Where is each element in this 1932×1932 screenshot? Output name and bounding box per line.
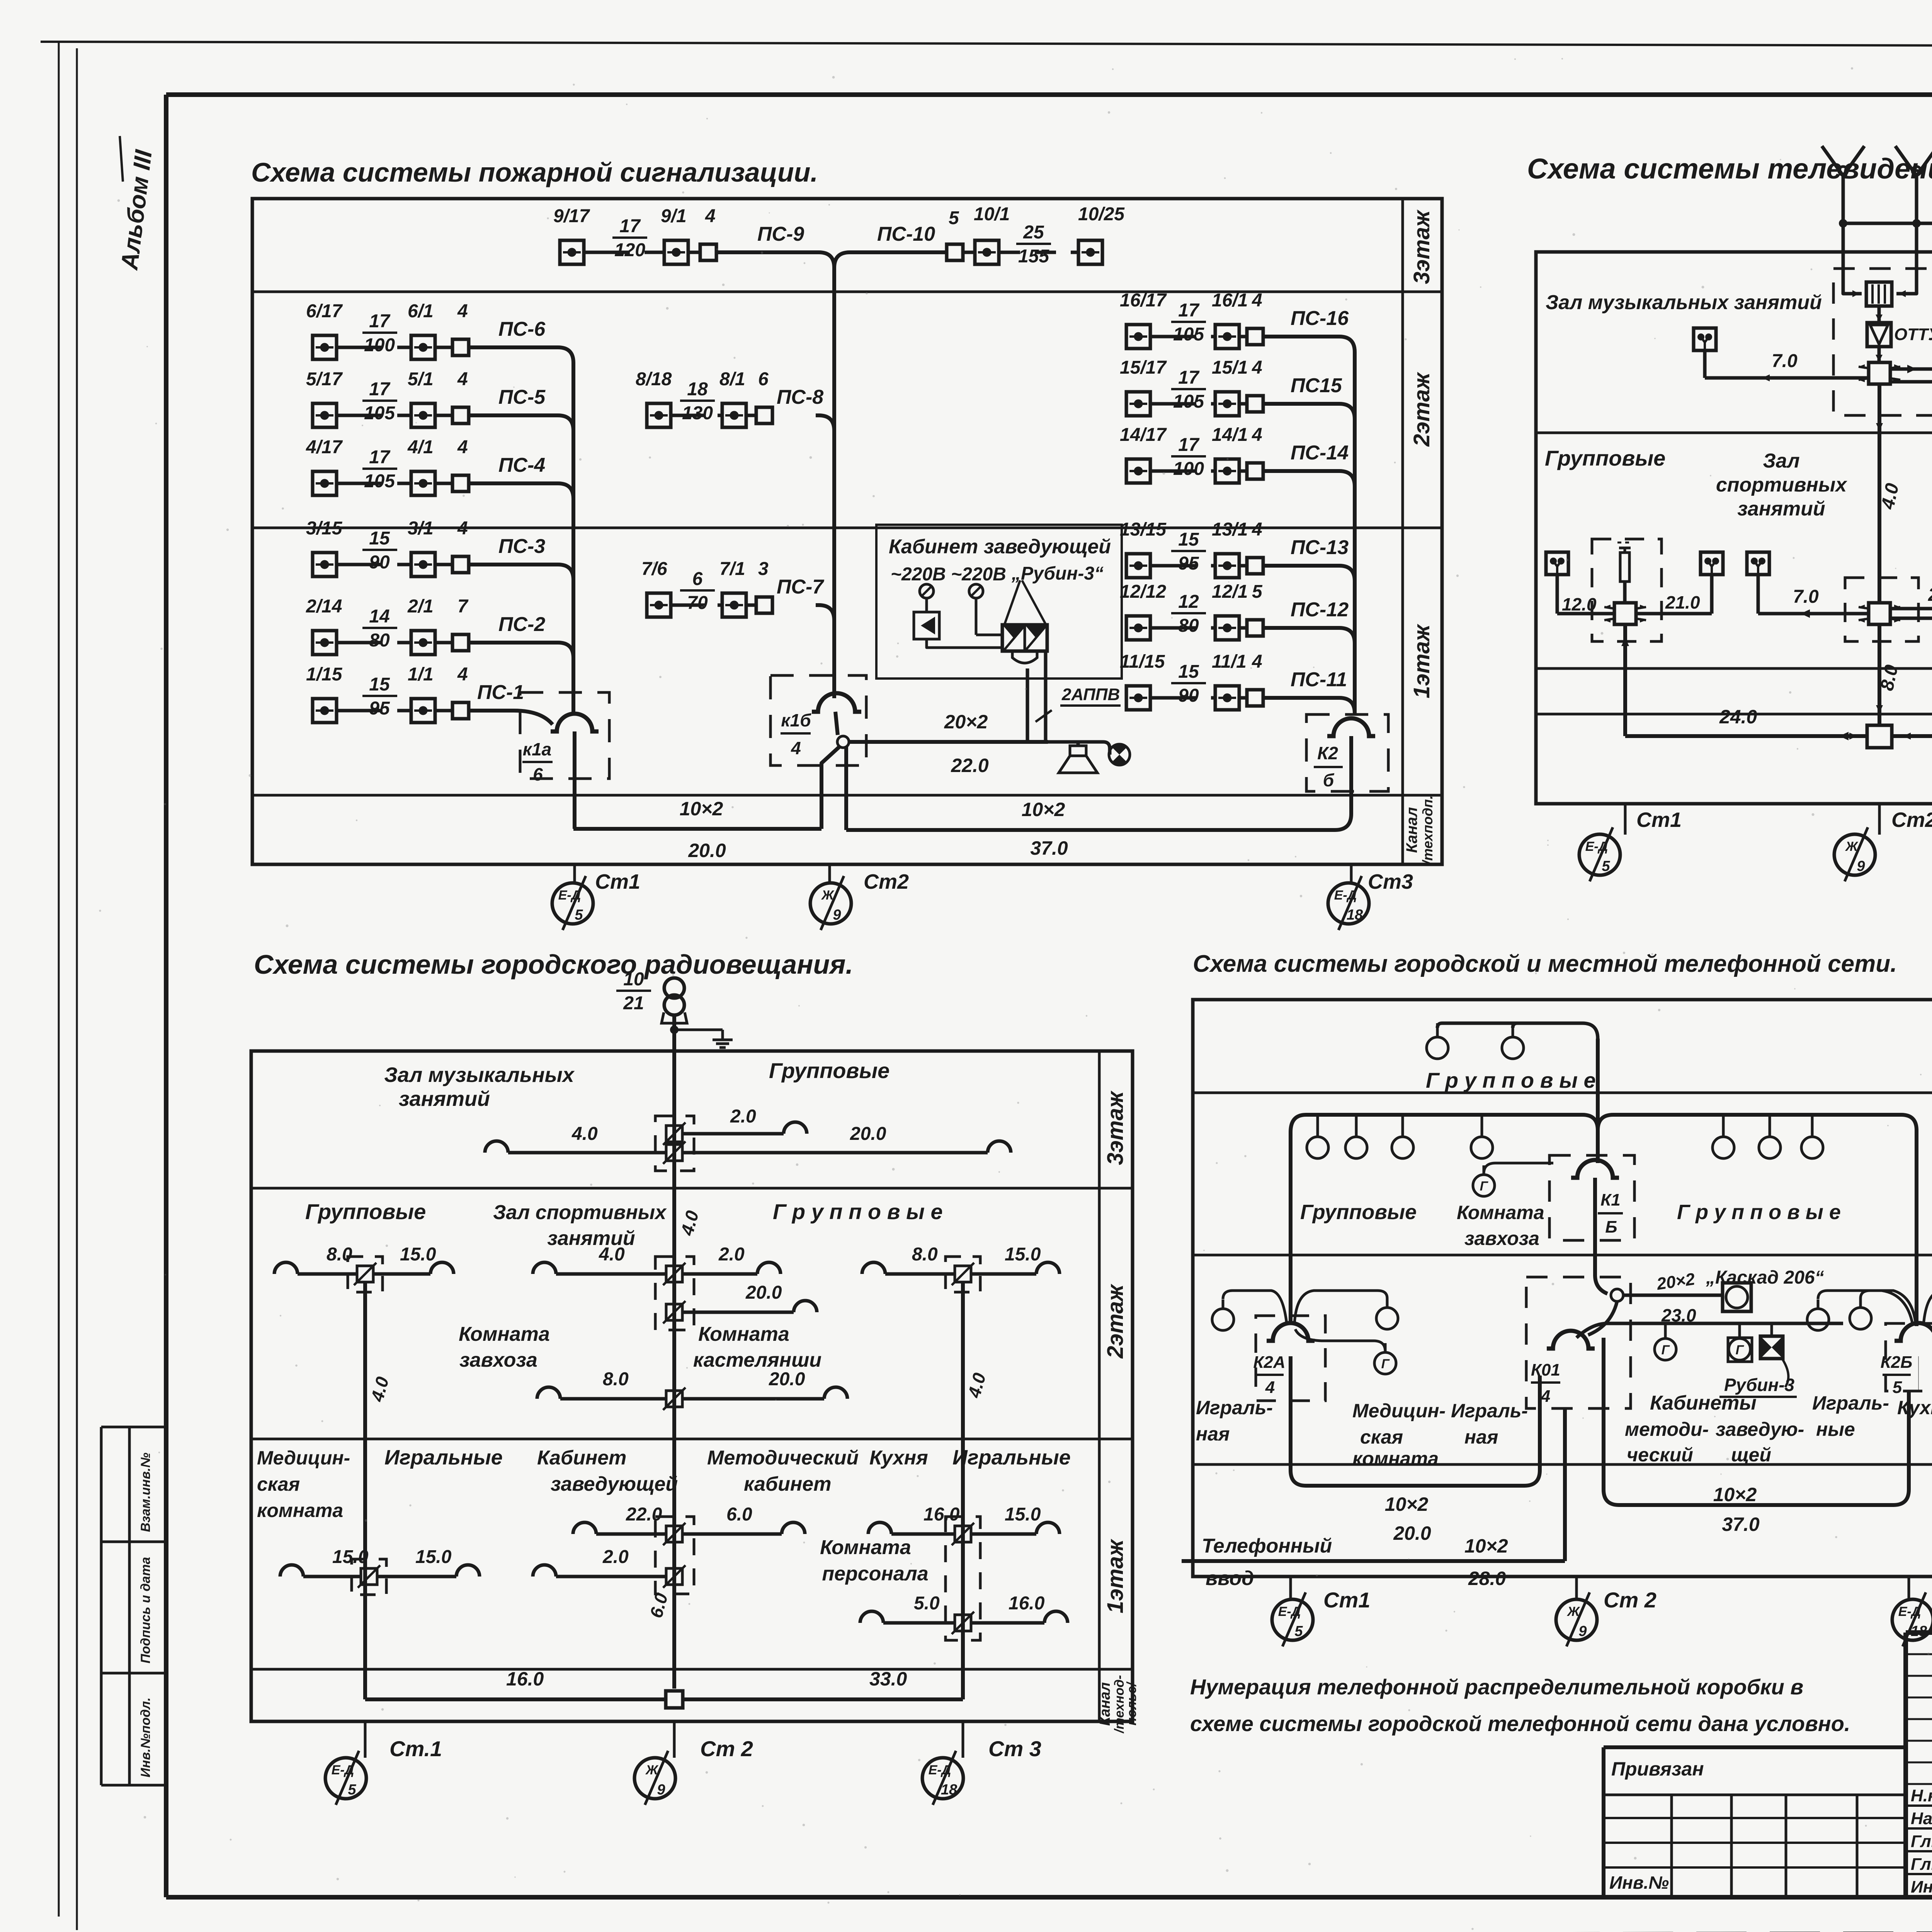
svg-text:95: 95 (1178, 553, 1199, 574)
svg-text:17: 17 (369, 311, 391, 332)
svg-text:Ст 2: Ст 2 (700, 1736, 753, 1761)
svg-text:90: 90 (1178, 685, 1199, 706)
svg-text:К2Б: К2Б (1881, 1353, 1913, 1372)
svg-text:Подпись и дата: Подпись и дата (138, 1557, 153, 1663)
svg-text:Игральные: Игральные (384, 1446, 503, 1469)
svg-text:13/15: 13/15 (1120, 519, 1167, 540)
svg-text:28.0: 28.0 (1468, 1568, 1506, 1589)
svg-text:100: 100 (364, 335, 395, 355)
svg-text:Схема системы телевидения: Схема системы телевидения (1527, 153, 1932, 185)
svg-text:17: 17 (619, 216, 641, 236)
svg-text:Г: Г (1480, 1179, 1489, 1194)
svg-text:37.0: 37.0 (1722, 1514, 1760, 1535)
svg-text:заведующей: заведующей (551, 1473, 678, 1495)
svg-text:Е-Д: Е-Д (558, 888, 581, 903)
svg-text:16.0: 16.0 (1009, 1593, 1045, 1614)
svg-text:33.0: 33.0 (869, 1668, 907, 1690)
svg-text:18: 18 (941, 1782, 957, 1798)
svg-text:ческий: ческий (1627, 1444, 1693, 1466)
svg-text:К2: К2 (1317, 743, 1338, 763)
svg-text:ная: ная (1464, 1426, 1498, 1448)
svg-text:4: 4 (1252, 651, 1262, 672)
svg-text:2этаж: 2этаж (1409, 371, 1434, 447)
svg-text:18: 18 (687, 379, 708, 400)
svg-text:8/18: 8/18 (636, 369, 672, 389)
svg-text:ПС-2: ПС-2 (498, 613, 545, 636)
svg-text:6/1: 6/1 (408, 301, 434, 321)
svg-text:Схема системы пожарной сигнали: Схема системы пожарной сигнализации. (251, 157, 818, 187)
svg-text:ОТТУ: ОТТУ (1894, 325, 1932, 344)
svg-text:Г: Г (1736, 1343, 1745, 1357)
svg-text:ская: ская (1360, 1426, 1403, 1448)
svg-text:ввод: ввод (1206, 1567, 1254, 1590)
svg-text:Е-Д: Е-Д (929, 1763, 951, 1777)
svg-text:завхоза: завхоза (459, 1349, 537, 1371)
svg-text:Нач.отд.: Нач.отд. (1911, 1809, 1932, 1828)
svg-text:70: 70 (687, 593, 708, 613)
svg-text:ПС-7: ПС-7 (777, 576, 824, 598)
svg-text:Б: Б (1605, 1218, 1617, 1236)
svg-text:80: 80 (369, 630, 390, 651)
svg-text:ПС-10: ПС-10 (877, 223, 935, 245)
svg-text:1этаж: 1этаж (1103, 1538, 1128, 1613)
svg-text:12: 12 (1178, 592, 1199, 612)
svg-text:16.0: 16.0 (506, 1668, 544, 1690)
svg-text:16/1: 16/1 (1212, 290, 1248, 311)
svg-text:Ст2: Ст2 (864, 870, 909, 893)
svg-text:20.0: 20.0 (745, 1282, 782, 1303)
svg-text:ПС-12: ПС-12 (1291, 599, 1349, 621)
svg-text:4/1: 4/1 (407, 437, 434, 457)
svg-text:Привязан: Привязан (1611, 1758, 1704, 1780)
svg-text:К2А: К2А (1253, 1353, 1285, 1372)
svg-text:14/17: 14/17 (1120, 425, 1167, 445)
svg-text:3/1: 3/1 (408, 518, 434, 539)
svg-text:Медицин-: Медицин- (257, 1447, 350, 1469)
svg-text:Зал спортивных: Зал спортивных (493, 1201, 667, 1224)
svg-text:2/14: 2/14 (306, 596, 342, 617)
svg-text:персонала: персонала (822, 1563, 928, 1585)
svg-text:5: 5 (1602, 858, 1610, 874)
svg-text:Ст 3: Ст 3 (988, 1736, 1041, 1761)
svg-text:24.0: 24.0 (1719, 706, 1757, 728)
svg-text:10×2: 10×2 (1385, 1493, 1429, 1515)
svg-text:ПС-5: ПС-5 (498, 386, 546, 408)
svg-text:Комната: Комната (1457, 1202, 1544, 1223)
svg-text:Инж: Инж (1911, 1878, 1932, 1896)
svg-text:4: 4 (1252, 357, 1262, 378)
svg-text:Г р у п п о в ы е: Г р у п п о в ы е (773, 1199, 943, 1224)
svg-text:37.0: 37.0 (1030, 837, 1068, 859)
svg-text:17: 17 (369, 447, 391, 468)
svg-text:схеме системы городской телефо: схеме системы городской телефонной сети … (1190, 1711, 1850, 1736)
svg-text:105: 105 (364, 471, 395, 492)
svg-text:ПС-14: ПС-14 (1291, 442, 1349, 464)
svg-text:21.0: 21.0 (1665, 592, 1700, 612)
svg-text:К1: К1 (1600, 1190, 1621, 1209)
svg-text:4.0: 4.0 (599, 1244, 625, 1265)
svg-text:2.0: 2.0 (1928, 585, 1932, 605)
svg-text:Кухня: Кухня (1897, 1397, 1932, 1418)
svg-text:15: 15 (369, 674, 390, 695)
svg-text:Групповые: Групповые (769, 1058, 889, 1083)
svg-text:9: 9 (1578, 1623, 1587, 1639)
svg-text:ская: ская (257, 1473, 300, 1495)
svg-text:5/17: 5/17 (306, 369, 343, 389)
svg-text:3этаж: 3этаж (1409, 209, 1434, 284)
svg-text:завхоза: завхоза (1464, 1228, 1539, 1249)
svg-text:Канал: Канал (1403, 807, 1420, 853)
svg-text:Инв.№: Инв.№ (1609, 1872, 1669, 1893)
svg-text:25: 25 (1023, 222, 1044, 243)
svg-text:14: 14 (369, 606, 389, 627)
svg-text:спортивных: спортивных (1716, 474, 1847, 496)
svg-text:Кабинет заведующей: Кабинет заведующей (889, 536, 1111, 558)
svg-text:10/1: 10/1 (974, 204, 1010, 224)
svg-text:полье/: полье/ (1124, 1681, 1139, 1726)
svg-text:5: 5 (949, 208, 959, 228)
svg-text:15/17: 15/17 (1120, 357, 1167, 378)
svg-text:4: 4 (1541, 1387, 1550, 1406)
svg-text:11/1: 11/1 (1212, 651, 1247, 672)
svg-text:ПС-16: ПС-16 (1291, 307, 1349, 330)
svg-text:1/15: 1/15 (306, 664, 343, 685)
svg-text:16.0: 16.0 (923, 1504, 960, 1525)
svg-text:Инв.№подл.: Инв.№подл. (138, 1697, 153, 1777)
svg-text:90: 90 (369, 552, 390, 573)
svg-text:6: 6 (758, 369, 769, 389)
svg-text:Схема системы городского радио: Схема системы городского радиовещания. (254, 949, 853, 980)
svg-text:17: 17 (1178, 435, 1200, 455)
svg-text:17: 17 (1178, 367, 1200, 388)
svg-text:ПС-11: ПС-11 (1291, 668, 1347, 691)
svg-text:2АППВ: 2АППВ (1061, 685, 1120, 704)
svg-text:ПС-9: ПС-9 (757, 223, 804, 245)
svg-text:ПС15: ПС15 (1291, 374, 1342, 397)
svg-text:Е-Д: Е-Д (1278, 1604, 1301, 1619)
svg-text:Играль-: Играль- (1451, 1400, 1528, 1422)
svg-text:4: 4 (1252, 519, 1262, 540)
svg-text:Медицин-: Медицин- (1352, 1400, 1446, 1422)
svg-text:Телефонный: Телефонный (1202, 1535, 1332, 1557)
svg-text:занятий: занятий (1737, 498, 1825, 520)
svg-text:4.0: 4.0 (571, 1124, 598, 1144)
svg-text:Е-Д: Е-Д (1898, 1604, 1921, 1619)
svg-text:15: 15 (369, 528, 390, 549)
svg-text:ПС-1: ПС-1 (477, 681, 524, 704)
svg-text:Кабинет: Кабинет (537, 1447, 626, 1469)
svg-text:2.0: 2.0 (602, 1547, 629, 1567)
svg-text:10×2: 10×2 (1713, 1484, 1757, 1505)
svg-text:20.0: 20.0 (769, 1369, 805, 1389)
svg-text:Комната: Комната (698, 1323, 789, 1345)
svg-text:Н.контр.: Н.контр. (1911, 1786, 1932, 1805)
svg-text:7/6: 7/6 (641, 559, 667, 579)
svg-text:15/1: 15/1 (1212, 357, 1248, 378)
svg-text:2.0: 2.0 (718, 1244, 745, 1265)
svg-text:1этаж: 1этаж (1409, 623, 1434, 698)
svg-text:20.0: 20.0 (688, 840, 726, 861)
svg-text:3: 3 (758, 559, 769, 579)
svg-text:Ж: Ж (821, 888, 835, 903)
svg-text:Групповые: Групповые (305, 1199, 426, 1224)
svg-text:2/1: 2/1 (407, 596, 434, 617)
svg-text:Ст3: Ст3 (1368, 870, 1413, 893)
svg-text:К01: К01 (1531, 1361, 1560, 1379)
svg-text:10×2: 10×2 (1022, 799, 1065, 820)
svg-text:к1б: к1б (781, 710, 811, 730)
svg-text:Взам.инв.№: Взам.инв.№ (138, 1452, 153, 1532)
svg-text:100: 100 (1173, 459, 1204, 479)
svg-text:22.0: 22.0 (951, 755, 989, 776)
svg-text:15.0: 15.0 (1005, 1244, 1041, 1265)
svg-text:4: 4 (457, 437, 468, 457)
svg-text:3этаж: 3этаж (1103, 1090, 1128, 1165)
svg-text:4: 4 (1265, 1378, 1275, 1397)
svg-text:8.0: 8.0 (603, 1369, 629, 1389)
svg-text:Ст1: Ст1 (595, 870, 640, 893)
svg-text:Комната: Комната (820, 1536, 911, 1559)
svg-text:10/25: 10/25 (1078, 204, 1125, 224)
svg-text:2этаж: 2этаж (1103, 1283, 1128, 1359)
svg-text:Е-Д: Е-Д (1334, 888, 1357, 903)
svg-text:7: 7 (457, 596, 469, 617)
svg-text:Ст1: Ст1 (1323, 1588, 1370, 1612)
svg-text:5: 5 (575, 907, 583, 923)
svg-text:Г: Г (1662, 1343, 1670, 1357)
svg-text:5: 5 (1294, 1623, 1303, 1639)
svg-text:105: 105 (364, 403, 395, 423)
svg-text:заведую-: заведую- (1716, 1418, 1804, 1440)
svg-text:22.0: 22.0 (626, 1504, 662, 1525)
svg-text:95: 95 (369, 698, 390, 719)
svg-text:9: 9 (657, 1782, 665, 1798)
svg-text:Групповые: Групповые (1545, 446, 1665, 470)
svg-text:Кухня: Кухня (869, 1447, 928, 1469)
svg-text:Кабинеты: Кабинеты (1650, 1392, 1757, 1414)
svg-text:к1а: к1а (523, 739, 551, 759)
svg-text:Ст2: Ст2 (1891, 808, 1932, 832)
svg-text:120: 120 (614, 240, 645, 260)
svg-text:Групповые: Групповые (1300, 1201, 1417, 1224)
svg-text:17: 17 (1178, 300, 1200, 321)
svg-text:ПС-13: ПС-13 (1291, 536, 1349, 559)
svg-text:18: 18 (1347, 907, 1363, 923)
svg-text:9: 9 (833, 907, 841, 923)
svg-text:Ст 2: Ст 2 (1604, 1588, 1656, 1612)
svg-text:/техподп.: /техподп. (1420, 795, 1435, 865)
svg-text:4: 4 (457, 369, 468, 389)
svg-text:Схема системы городской и мест: Схема системы городской и местной телефо… (1193, 951, 1897, 977)
svg-text:14/1: 14/1 (1212, 425, 1248, 445)
svg-text:5: 5 (1893, 1378, 1902, 1397)
svg-text:7.0: 7.0 (1793, 587, 1819, 607)
svg-text:155: 155 (1018, 246, 1049, 267)
svg-text:10: 10 (623, 969, 644, 990)
svg-text:130: 130 (682, 403, 713, 423)
svg-text:4: 4 (457, 518, 468, 539)
svg-text:кастелянши: кастелянши (693, 1349, 821, 1371)
svg-text:ПС-4: ПС-4 (498, 454, 545, 476)
svg-text:~220В ~220В: ~220В ~220В (891, 564, 1006, 585)
svg-text:Комната: Комната (459, 1323, 550, 1345)
svg-text:9/17: 9/17 (553, 206, 590, 226)
svg-text:13/1: 13/1 (1212, 519, 1248, 540)
svg-text:Методический: Методический (707, 1447, 859, 1469)
svg-text:10×2: 10×2 (680, 798, 723, 820)
svg-text:11/15: 11/15 (1120, 651, 1165, 672)
svg-text:5: 5 (1252, 582, 1263, 602)
svg-text:Играль-: Играль- (1812, 1392, 1889, 1414)
svg-text:8/1: 8/1 (719, 369, 745, 389)
svg-text:кабинет: кабинет (744, 1473, 831, 1495)
svg-text:12/1: 12/1 (1212, 582, 1248, 602)
svg-text:12/12: 12/12 (1120, 582, 1166, 602)
svg-text:ПС-8: ПС-8 (777, 386, 823, 408)
svg-text:Г: Г (1381, 1357, 1390, 1371)
svg-text:21: 21 (623, 993, 644, 1014)
svg-text:5: 5 (348, 1782, 356, 1798)
svg-text:7/1: 7/1 (719, 559, 745, 579)
svg-text:4: 4 (457, 301, 468, 321)
svg-text:6.0: 6.0 (726, 1504, 752, 1525)
svg-text:4: 4 (457, 664, 468, 685)
svg-text:4/17: 4/17 (306, 437, 343, 457)
svg-text:15: 15 (1178, 662, 1199, 682)
svg-text:15.0: 15.0 (400, 1244, 436, 1265)
svg-text:9/1: 9/1 (661, 206, 687, 226)
svg-text:ПС-3: ПС-3 (498, 535, 545, 558)
svg-text:12.0: 12.0 (1562, 594, 1597, 614)
svg-text:б: б (1323, 770, 1335, 790)
svg-text:4: 4 (1252, 425, 1262, 445)
svg-text:комната: комната (257, 1500, 343, 1521)
svg-text:6: 6 (692, 569, 703, 589)
svg-text:Ж: Ж (1845, 839, 1859, 854)
svg-text:105: 105 (1173, 324, 1204, 345)
svg-text:Ж: Ж (1566, 1604, 1580, 1619)
svg-text:Канал: Канал (1097, 1682, 1113, 1726)
svg-text:Гл.спец.: Гл.спец. (1911, 1855, 1932, 1874)
svg-text:15: 15 (1178, 529, 1199, 550)
svg-text:Ж: Ж (645, 1763, 659, 1777)
svg-text:16/17: 16/17 (1120, 290, 1167, 311)
svg-text:15.0: 15.0 (415, 1547, 452, 1567)
svg-text:80: 80 (1178, 616, 1199, 636)
svg-text:Зал музыкальных: Зал музыкальных (384, 1063, 575, 1087)
svg-text:20.0: 20.0 (850, 1124, 886, 1144)
svg-text:Игральные: Игральные (952, 1446, 1071, 1469)
svg-text:занятий: занятий (399, 1087, 490, 1111)
svg-text:10×2: 10×2 (1464, 1535, 1508, 1557)
svg-text:4: 4 (791, 738, 801, 758)
svg-text:8.0: 8.0 (912, 1244, 938, 1265)
svg-text:Зал музыкальных занятий: Зал музыкальных занятий (1546, 291, 1822, 314)
svg-text:20.0: 20.0 (1393, 1522, 1431, 1544)
svg-text:105: 105 (1173, 391, 1204, 412)
svg-text:Е-Д: Е-Д (1585, 839, 1608, 854)
svg-text:Зал: Зал (1763, 450, 1799, 472)
svg-text:17: 17 (369, 379, 391, 400)
svg-text:ная: ная (1196, 1423, 1230, 1445)
svg-text:6: 6 (533, 764, 543, 784)
svg-text:Ст1: Ст1 (1636, 808, 1682, 832)
svg-text:Гл.инж.: Гл.инж. (1911, 1832, 1932, 1851)
svg-text:9: 9 (1857, 858, 1865, 874)
svg-text:щей: щей (1731, 1444, 1771, 1466)
svg-text:ные: ные (1816, 1418, 1855, 1440)
svg-text:Г р у п п о в ы е: Г р у п п о в ы е (1677, 1201, 1841, 1224)
svg-text:15.0: 15.0 (1005, 1504, 1041, 1525)
svg-text:комната: комната (1352, 1448, 1439, 1469)
svg-text:Е-Д: Е-Д (332, 1763, 354, 1777)
svg-text:Играль-: Играль- (1196, 1397, 1273, 1418)
svg-text:методи-: методи- (1625, 1418, 1709, 1440)
svg-text:Г р у п п о в ы е: Г р у п п о в ы е (1426, 1068, 1596, 1092)
svg-text:1/1: 1/1 (408, 664, 434, 685)
svg-text:Нумерация телефонной распредел: Нумерация телефонной распределительной к… (1190, 1675, 1803, 1699)
svg-text:4: 4 (1252, 290, 1262, 311)
svg-text:„Рубин-3“: „Рубин-3“ (1011, 563, 1104, 584)
svg-text:2.0: 2.0 (730, 1106, 756, 1127)
svg-text:6/17: 6/17 (306, 301, 343, 321)
svg-text:ПС-6: ПС-6 (498, 318, 546, 340)
svg-text:3/15: 3/15 (306, 518, 343, 539)
svg-text:5/1: 5/1 (408, 369, 434, 389)
svg-text:4: 4 (705, 206, 716, 226)
svg-text:5.0: 5.0 (914, 1593, 940, 1614)
svg-text:7.0: 7.0 (1772, 351, 1798, 371)
svg-text:20×2: 20×2 (944, 711, 988, 733)
svg-text:Ст.1: Ст.1 (389, 1736, 442, 1761)
